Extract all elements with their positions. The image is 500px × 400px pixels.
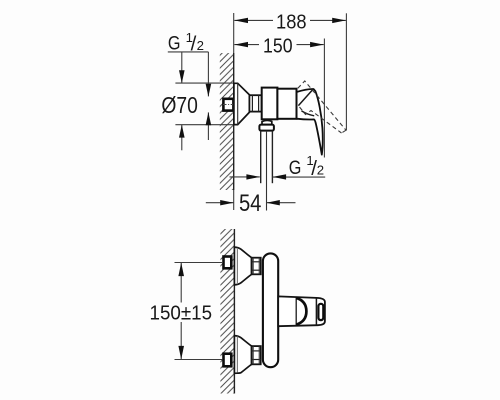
valve body (top view)	[262, 88, 278, 120]
extension line for 188 (open lever tip)	[345, 13, 347, 130]
lower union nut (front view)	[252, 346, 261, 364]
dimension O70 upper arrow	[181, 52, 183, 83]
handle cap line	[315, 298, 317, 325]
wall surface line (front view)	[233, 229, 235, 394]
hex nut (top view)	[249, 95, 261, 111]
G1/2 inlet leader upper arrow	[207, 52, 209, 97]
svg-text:150±15: 150±15	[150, 302, 213, 324]
inlet centerline	[223, 104, 237, 106]
nut facet lines	[251, 95, 253, 111]
lower inlet square (front view)	[224, 354, 232, 367]
extension line at wall for 188/150/54	[233, 13, 235, 53]
upper escutcheon (front view)	[234, 247, 251, 285]
svg-text:G: G	[289, 157, 302, 179]
lever inner diagonal line	[298, 90, 312, 106]
escutcheon flange edge line	[237, 83, 239, 124]
outlet elbow	[262, 120, 272, 124]
lever handle (side view)	[297, 89, 323, 155]
dashed lever open position	[298, 81, 346, 133]
wall hatching (top view)	[220, 53, 234, 190]
svg-text:2: 2	[197, 38, 204, 53]
dimension 150+-15 upper arrow	[180, 263, 182, 303]
G1/2 inlet leader lower arrow	[207, 112, 209, 140]
handle neck line	[295, 297, 297, 326]
lower escutcheon (front view)	[234, 336, 251, 374]
label G 1/2 underline	[168, 51, 209, 53]
lower escutcheon flange line	[236, 336, 238, 372]
wall surface line (top view)	[233, 53, 235, 190]
svg-text:54: 54	[239, 190, 262, 217]
svg-text:150: 150	[263, 36, 293, 58]
dimension 54 left arrow	[206, 202, 234, 204]
dimension 188 arrowheads	[234, 18, 248, 23]
extension line for 150 (lever tip)	[323, 39, 325, 158]
dimension 150 arrowheads	[234, 42, 248, 47]
upper union nut (front view)	[252, 258, 261, 275]
G1/2 hose arrow right with underline	[273, 176, 326, 178]
svg-text:2: 2	[317, 162, 324, 177]
dimension 150+-15 lower arrow	[180, 322, 182, 359]
svg-text:Ø70: Ø70	[161, 92, 198, 118]
mixer body capsule (front view)	[263, 253, 278, 367]
upper escutcheon flange line	[236, 248, 238, 284]
dimension O70 lower arrow	[181, 125, 183, 151]
svg-text:G: G	[168, 32, 181, 54]
O70 extension lines	[175, 82, 233, 84]
dimension 54 right arrow	[267, 202, 296, 204]
dimension 150 line	[234, 44, 323, 46]
hose centerline / 54 extension	[266, 131, 268, 211]
hose nut	[259, 125, 274, 131]
handle dome arc	[296, 298, 306, 325]
wall hatching (front view)	[220, 229, 234, 394]
extension lines 150+-15	[175, 262, 223, 264]
cartridge housing (top view)	[277, 89, 296, 119]
dimension 188 line	[234, 19, 346, 21]
inlet square (top view)	[223, 99, 233, 111]
handle (front view)	[278, 296, 325, 326]
handle end oval	[318, 304, 323, 320]
G1/2 hose arrow left	[230, 176, 260, 178]
upper inlet square (front view)	[224, 257, 232, 269]
lever underside crease	[302, 111, 315, 116]
shower hose lines	[260, 131, 262, 183]
svg-text:188: 188	[276, 12, 307, 34]
escutcheon cone (top view)	[234, 83, 250, 124]
